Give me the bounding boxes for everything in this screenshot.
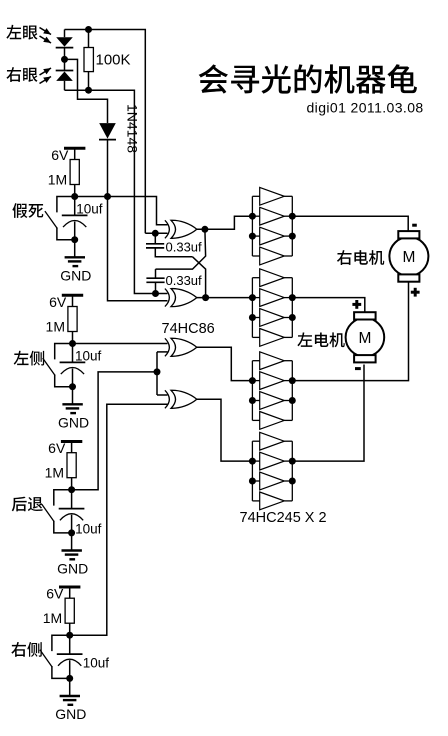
junction: bottom rail / R1 bottom xyxy=(85,87,92,94)
svg-text:1M: 1M xyxy=(43,610,62,626)
svg-text:1M: 1M xyxy=(46,319,65,335)
svg-text:M: M xyxy=(402,249,415,266)
svg-text:GND: GND xyxy=(57,561,88,577)
svg-text:GND: GND xyxy=(55,706,86,722)
capacitor 10uf (block2) xyxy=(60,344,86,387)
junction: XOR2 upper input / C2 xyxy=(152,290,159,297)
wire: C2 junction into XOR2 upper input xyxy=(156,293,168,295)
wire: XOR1 lower input junction to gate xyxy=(145,232,167,234)
wire: 1N4148 line continues to XOR2 lower input xyxy=(108,197,168,301)
polarity - (M2 bottom) xyxy=(355,367,361,370)
ground symbol (block1) xyxy=(65,240,85,266)
label 左侧 (block2) xyxy=(14,351,44,366)
wire: block2 node to XOR3 upper input xyxy=(73,343,168,345)
capacitor 10uf (block4) xyxy=(57,635,83,678)
switch 左侧 (block2) xyxy=(43,344,73,387)
wire: G4 output to left motor terminal - xyxy=(292,365,364,462)
wire: G2 output to left motor terminal + xyxy=(292,298,365,312)
xor gate U1C (74HC86) xyxy=(165,338,197,356)
light arrows into left-eye photodiode xyxy=(40,28,52,44)
svg-text:6V: 6V xyxy=(51,147,69,163)
junction: G3 output bus lower xyxy=(289,397,296,404)
light arrows into right-eye photodiode xyxy=(40,68,52,84)
junction: G2 output bus upper xyxy=(289,294,296,301)
node: block1 RC node xyxy=(71,193,78,200)
power supply 6V bar (block1) xyxy=(64,148,85,159)
junction: G2 input bus lower xyxy=(249,314,256,321)
svg-text:10uf: 10uf xyxy=(75,522,102,537)
switch 后退 (block3) xyxy=(42,490,72,533)
node: block3 RC node xyxy=(68,486,75,493)
wire: block3 node up to XOR3/XOR4 shared input xyxy=(72,372,157,490)
svg-text:digi01 2011.03.08: digi01 2011.03.08 xyxy=(307,100,424,116)
node: block2 bottom node xyxy=(69,383,76,390)
node: block1 bottom node xyxy=(71,236,78,243)
wire: XOR1 output to buffer group 1 input xyxy=(197,216,253,229)
wire: C1 bottom cross-feedback to XOR2 output xyxy=(193,257,206,298)
ground symbol (block4) xyxy=(60,678,80,704)
capacitor C2 0.33uf xyxy=(146,269,164,293)
wire: XOR1 output cross-feedback to C2 top xyxy=(156,229,206,269)
diode D3 1N4148 xyxy=(99,123,116,196)
svg-text:10uf: 10uf xyxy=(75,349,102,364)
svg-text:GND: GND xyxy=(58,415,89,431)
svg-text:74HC245 X 2: 74HC245 X 2 xyxy=(240,510,327,526)
wire: top rail from D1 anode to XOR1 lower-input drop xyxy=(65,30,146,234)
node: XOR1 output xyxy=(201,226,208,233)
buffer group G3 (74HC245, 4 parallel buffers) xyxy=(252,352,292,430)
wire: XOR4 output to buffer group 4 input xyxy=(197,399,252,461)
power supply 6V bar (block2) xyxy=(62,295,83,306)
buffer group G2 (74HC245, 4 parallel buffers) xyxy=(252,269,292,347)
buffer group G1 (74HC245, 4 parallel buffers) xyxy=(252,187,292,265)
buffer group G4 (74HC245, 4 parallel buffers) xyxy=(252,432,292,510)
label 假死 (block1) xyxy=(12,203,43,218)
svg-text:1M: 1M xyxy=(48,172,67,188)
label 左电机 (left motor) xyxy=(297,332,344,347)
junction: G4 input bus lower xyxy=(249,478,256,485)
motor M1 right motor xyxy=(389,231,428,282)
polarity - (M1 top) xyxy=(412,224,417,227)
resistor 1M (block1) xyxy=(70,160,79,185)
svg-text:10uf: 10uf xyxy=(83,656,110,671)
junction: 1N4148 line joins block1 wire xyxy=(104,193,111,200)
junction: G1 input bus lower xyxy=(249,233,256,240)
node A: junction between photodiodes xyxy=(61,56,68,63)
wire: XOR3 lower input / XOR4 upper input tie xyxy=(157,352,168,395)
svg-text:1M: 1M xyxy=(45,465,64,481)
photodiode D2 right eye xyxy=(56,59,74,90)
wire: G1 output to right motor terminal - xyxy=(292,216,408,232)
wire: G3 output to right motor terminal + xyxy=(292,282,408,381)
junction: G3 input bus lower xyxy=(249,397,256,404)
xor gate U1B (74HC86) xyxy=(165,289,197,307)
junction: G3 input bus upper xyxy=(249,377,256,384)
svg-text:10uf: 10uf xyxy=(76,202,103,217)
svg-text:6V: 6V xyxy=(49,294,67,310)
resistor 1M (block2) xyxy=(68,307,77,332)
title text 会寻光的机器龟 xyxy=(199,64,417,93)
svg-text:6V: 6V xyxy=(48,440,66,456)
motor M2 left motor xyxy=(346,312,385,362)
power supply 6V bar (block3) xyxy=(61,442,82,453)
svg-text:1N4148: 1N4148 xyxy=(125,104,141,153)
svg-text:0.33uf: 0.33uf xyxy=(166,239,203,254)
junction: XOR1 lower input / C1 xyxy=(152,230,159,237)
svg-text:GND: GND xyxy=(60,268,91,284)
ground symbol (block3) xyxy=(62,533,82,559)
xor gate U1A (74HC86) xyxy=(165,220,197,238)
node: block3 bottom node xyxy=(68,529,75,536)
node: block4 bottom node xyxy=(66,675,73,682)
resistor R1 100K xyxy=(84,30,93,91)
label 左眼 (left eye) xyxy=(6,25,37,40)
wire: XOR2 output to buffer group 2 input xyxy=(197,297,253,299)
label 右侧 (block4) xyxy=(11,642,41,657)
switch 右侧 (block4) xyxy=(40,635,70,678)
junction: G4 output bus lower xyxy=(289,478,296,485)
wire: bottom rail from D2 cathode to XOR2 upper input xyxy=(65,90,156,293)
label 后退 (block3) xyxy=(12,497,43,512)
junction: G4 input bus upper xyxy=(249,458,256,465)
node: XOR2 output xyxy=(202,294,209,301)
svg-text:74HC86: 74HC86 xyxy=(162,321,215,337)
svg-text:0.33uf: 0.33uf xyxy=(166,273,203,288)
wire: block1 node to XOR1 upper input xyxy=(75,197,168,225)
junction: G4 output bus upper xyxy=(289,458,296,465)
node: block2 RC node xyxy=(69,340,76,347)
polarity + (M1 bottom) xyxy=(411,288,420,297)
svg-text:6V: 6V xyxy=(46,586,64,602)
resistor 1M (block3) xyxy=(67,453,76,478)
junction: G1 input bus upper xyxy=(249,213,256,220)
wire: node A to 1N4148 xyxy=(65,59,108,123)
resistor 1M (block4) xyxy=(65,598,74,623)
wire: XOR3 output to buffer group 3 input xyxy=(197,347,253,380)
junction: shared XOR3/XOR4 input xyxy=(154,368,161,375)
wire: block4 node up to XOR4 lower input xyxy=(70,404,168,635)
label 右眼 (right eye) xyxy=(6,67,37,82)
svg-text:100K: 100K xyxy=(96,52,131,69)
junction: G3 output bus upper xyxy=(289,377,296,384)
polarity + (M2 top) xyxy=(352,300,361,309)
junction: G1 output bus lower xyxy=(289,233,296,240)
photodiode D1 left eye xyxy=(56,30,74,60)
junction: top rail / R1 top xyxy=(85,26,92,33)
node: block4 RC node xyxy=(66,632,73,639)
ground symbol (block2) xyxy=(62,387,82,413)
xor gate U1D (74HC86) xyxy=(165,390,197,408)
label 右电机 (right motor) xyxy=(337,250,384,265)
capacitor C1 0.33uf xyxy=(146,233,193,256)
junction: G2 input bus upper xyxy=(249,294,256,301)
capacitor 10uf (block1) xyxy=(62,197,88,240)
power supply 6V bar (block4) xyxy=(59,587,80,598)
capacitor 10uf (block3) xyxy=(59,490,85,533)
junction: G1 output bus upper xyxy=(289,213,296,220)
svg-text:M: M xyxy=(358,330,371,347)
switch 假死 (block1) xyxy=(45,197,75,240)
junction: G2 output bus lower xyxy=(289,314,296,321)
